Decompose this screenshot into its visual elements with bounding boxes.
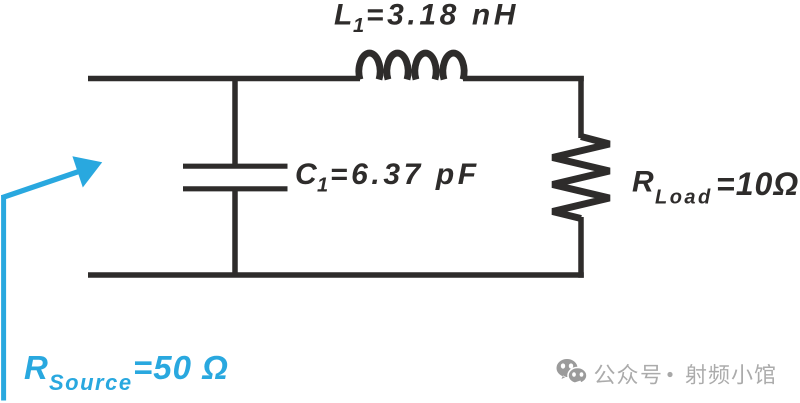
svg-text:Source: Source <box>49 370 133 395</box>
wire top-left segment <box>88 76 360 82</box>
wire capacitor branch lower <box>232 190 238 277</box>
source arrow (cyan) vertical lead <box>1 195 6 401</box>
inductor L1 <box>359 53 464 79</box>
svg-text:=3.18 nH: =3.18 nH <box>366 0 519 32</box>
watermark wechat icon small bubble <box>568 368 587 385</box>
label R_Load value <box>632 166 799 209</box>
watermark char 馆 <box>755 364 775 384</box>
watermark separator dot <box>667 372 672 377</box>
label L1 value <box>334 0 519 37</box>
capacitor C1 top plate <box>183 164 288 169</box>
watermark wechat icon big bubble <box>557 359 578 379</box>
watermark wechat icon small bubble eyes <box>572 372 576 377</box>
wire right vertical upper <box>578 76 584 138</box>
watermark char 公 <box>595 364 615 384</box>
source arrow diagonal shaft <box>2 171 81 198</box>
svg-text:=6.37 pF: =6.37 pF <box>330 158 480 191</box>
svg-text:R: R <box>24 349 48 386</box>
wire top-right segment <box>463 76 584 82</box>
capacitor C1 bottom plate <box>183 186 288 191</box>
svg-text:C: C <box>295 158 319 191</box>
watermark char 号 <box>641 365 660 384</box>
wire capacitor branch upper <box>232 76 238 165</box>
svg-text:1: 1 <box>317 175 330 197</box>
watermark char 众 <box>618 364 638 384</box>
svg-text:=10Ω: =10Ω <box>716 166 799 202</box>
resistor R_Load zigzag <box>553 137 610 219</box>
source arrow head <box>72 156 102 187</box>
watermark char 射 <box>686 364 706 384</box>
svg-text:Load: Load <box>655 187 713 209</box>
svg-text:=50 Ω: =50 Ω <box>133 349 229 386</box>
watermark char 小 <box>732 364 753 384</box>
svg-text:L: L <box>334 0 355 32</box>
svg-text:R: R <box>632 166 654 199</box>
svg-text:1: 1 <box>353 15 366 37</box>
label R_Source value (cyan) <box>24 349 229 395</box>
watermark char 频 <box>709 364 729 384</box>
wire right vertical lower <box>578 217 584 278</box>
label C1 value <box>295 158 480 197</box>
watermark wechat icon big bubble eyes <box>561 363 565 368</box>
wire bottom <box>88 272 584 278</box>
